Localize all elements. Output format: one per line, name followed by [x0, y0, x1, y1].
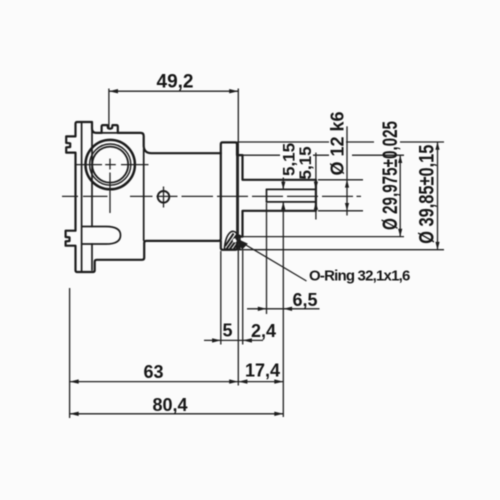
svg-text:6,5: 6,5: [293, 290, 318, 310]
dimension 2,4 extension right: [242, 251, 244, 345]
o-ring leader line: [240, 242, 307, 282]
keyway slot bottom line: [267, 201, 316, 203]
slab diameter extension bottom: [237, 249, 444, 251]
svg-text:17,4: 17,4: [245, 361, 280, 381]
keyway slot top line: [267, 188, 316, 190]
pump body outline with mounting plate, tabs, boss, cylinder, flange slab, spigot and shaft: [66, 122, 316, 272]
shaft diameter extension stubs: [318, 180, 363, 211]
keyway slot left end: [266, 189, 268, 202]
boss on top of body: [102, 132, 118, 134]
dimension 49,2 right arrow: [229, 89, 238, 93]
svg-text:5,15: 5,15: [296, 146, 315, 179]
dimension 5 extension left: [220, 251, 222, 345]
dimension diameter 29,975 arrows: [398, 155, 402, 163]
dimension 63 arrows: [70, 379, 79, 383]
spigot bottom edge: [237, 236, 243, 238]
dimension 63 extension left: [69, 288, 71, 418]
dimension 6,5 line: [247, 308, 320, 310]
dimension 2,4 arrow (outside): [243, 338, 252, 342]
dimension 5 arrows (outside): [212, 338, 221, 342]
dimension 6,5 arrows (outside): [258, 307, 267, 311]
plate right edge lower segment: [91, 244, 93, 270]
housing diameter extension bottom: [243, 236, 405, 238]
dimension 80,4 arrows: [70, 412, 79, 416]
plate right edge upper segment: [91, 128, 93, 227]
dimension 5,15 left extension continues down: [282, 212, 284, 417]
dimension 5,15 left line with outside arrows: [282, 178, 284, 213]
dimension 5,15 right arrows on shaft end line: [314, 182, 318, 190]
dimension 6,5 extension left from keyway: [266, 203, 268, 314]
dimension diameter 29,975 line: [399, 155, 401, 236]
shaft end face extension line: [315, 153, 317, 220]
dimension 80,4 line: [70, 413, 284, 415]
svg-text:O-Ring 32,1x1,6: O-Ring 32,1x1,6: [309, 268, 410, 285]
spigot top edge: [237, 154, 243, 156]
body/cylinder boundary vertical: [143, 149, 145, 240]
main axis centerline: [62, 195, 361, 197]
port outer circle: [86, 140, 135, 189]
dimension 63 line: [70, 381, 239, 383]
dimension diameter 12 k6 line: [346, 126, 348, 215]
o-ring leader arrowhead: [235, 238, 248, 250]
foot slot rounded channel: [82, 227, 121, 245]
small hole circle: [158, 191, 170, 203]
slab diameter extension top: [237, 141, 444, 143]
dimension 49,2 line: [109, 90, 238, 92]
dimension 49,2 left arrow: [109, 89, 118, 93]
svg-text:49,2: 49,2: [157, 72, 194, 93]
svg-text:Ø 39,85±0,15: Ø 39,85±0,15: [415, 145, 438, 244]
dimension 17,4 line: [238, 381, 283, 383]
port middle circle: [90, 144, 131, 185]
port inner circle: [92, 147, 128, 183]
dimension 5 / 2,4 line: [204, 339, 263, 341]
cylinder top edge step to flange slab: [92, 122, 221, 153]
flange slab right edge full line: [236, 144, 238, 249]
svg-text:63: 63: [144, 362, 164, 382]
port vertical centerline: [109, 159, 111, 213]
svg-text:2,4: 2,4: [251, 321, 276, 341]
dimension diameter 39,85 arrows: [435, 142, 439, 150]
dimension diameter 39,85 line: [437, 142, 439, 250]
svg-text:Ø 29,975±0,025: Ø 29,975±0,025: [378, 121, 402, 230]
small hole vertical centerline: [163, 187, 165, 208]
dimension 49,2 extension left (into boss): [108, 89, 110, 129]
svg-text:5: 5: [223, 321, 233, 341]
housing diameter extension top: [243, 154, 405, 156]
svg-text:Ø 12 k6: Ø 12 k6: [328, 111, 348, 175]
o-ring cross section hatched blob: [224, 231, 240, 249]
dimension diameter 12 arrows: [345, 180, 349, 188]
dimension 49,2 extension right (long shared line): [237, 89, 239, 386]
plate inner rib line: [81, 122, 83, 271]
port horizontal centerline: [76, 164, 149, 166]
svg-text:80,4: 80,4: [153, 395, 188, 415]
dimension 17,4 arrows: [238, 379, 247, 383]
